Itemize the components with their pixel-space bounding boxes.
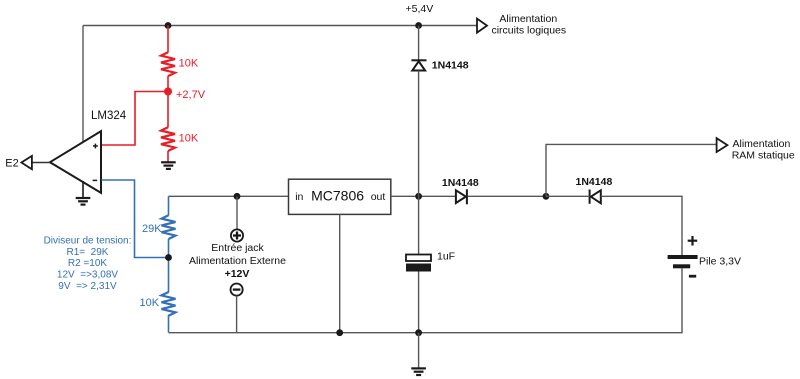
label Alimentation circuits logiques — [491, 13, 566, 37]
diode D2 1N4148 (horizontal, to RAM node) — [456, 189, 467, 204]
svg-text:Alimentation Externe: Alimentation Externe — [189, 255, 286, 267]
label Diviseur de tension block — [44, 235, 132, 292]
svg-text:MC7806: MC7806 — [311, 188, 364, 204]
node jack tap — [234, 193, 241, 200]
wire red feedback to + input — [102, 92, 169, 146]
svg-text:Alimentation: Alimentation — [499, 13, 557, 25]
battery B1 Pile 3,3V — [668, 236, 698, 276]
wire cap to bottom rail — [418, 272, 420, 333]
wire jack + stem — [236, 196, 238, 229]
svg-text:RAM statique: RAM statique — [732, 150, 795, 162]
resistor 10K lower (red) — [161, 127, 175, 151]
node +2,7V (red) — [164, 88, 172, 96]
resistor 10K (blue) — [162, 292, 176, 316]
wire jack - stem — [236, 296, 238, 333]
svg-text:R1= 29K: R1= 29K — [67, 247, 109, 258]
jack - terminal — [231, 284, 243, 296]
resistor 10K upper (red) — [161, 52, 175, 76]
wire RAM branch up and right — [546, 144, 717, 196]
svg-text:9V => 2,31V: 9V => 2,31V — [58, 281, 117, 292]
wire D2 to RAM node — [468, 195, 546, 197]
resistor 29K (blue) — [162, 215, 176, 239]
diode D3 1N4148 (horizontal, from battery) — [590, 190, 601, 204]
svg-text:LM324: LM324 — [91, 110, 127, 122]
wire left vertical to op-amp top — [82, 26, 84, 144]
wire battery minus to bottom rail — [169, 268, 683, 332]
svg-text:Pile 3,3V: Pile 3,3V — [699, 256, 741, 268]
wire red from rail to R top — [167, 26, 169, 162]
wire D3 left to node — [546, 195, 590, 197]
svg-text:R2 =10K: R2 =10K — [68, 258, 108, 269]
svg-text:out: out — [371, 191, 386, 203]
node divider mid — [165, 254, 172, 261]
capacitor C1 1uF — [406, 255, 431, 272]
svg-text:1N4148: 1N4148 — [442, 177, 479, 189]
wire vertical +5,4V branch — [418, 26, 420, 60]
svg-text:12V =>3,08V: 12V =>3,08V — [57, 269, 118, 280]
svg-text:circuits logiques: circuits logiques — [491, 25, 566, 37]
svg-text:E2: E2 — [5, 158, 18, 170]
svg-text:1uF: 1uF — [437, 251, 455, 263]
label Alimentation RAM statique — [732, 138, 795, 162]
svg-text:Alimentation: Alimentation — [733, 138, 791, 150]
node on top rail at +5,4V — [415, 22, 422, 29]
node on top rail at resistor chain — [165, 22, 172, 29]
wire top rail +5,4V — [83, 25, 477, 27]
arrow E2 — [21, 156, 32, 169]
svg-text:29K: 29K — [142, 223, 162, 235]
svg-text:10K: 10K — [179, 133, 199, 145]
svg-text:Diviseur de tension:: Diviseur de tension: — [44, 235, 132, 246]
wire blue divider segments — [168, 196, 170, 332]
svg-text:in: in — [295, 191, 303, 203]
diode D1 1N4148 (vertical) — [411, 60, 426, 70]
node regulator ground on bottom rail — [336, 329, 343, 336]
svg-text:1N4148: 1N4148 — [576, 176, 613, 188]
jack + terminal — [231, 229, 243, 241]
svg-text:Entrée jack: Entrée jack — [211, 242, 264, 254]
svg-text:1N4148: 1N4148 — [432, 60, 469, 72]
node RAM branch — [543, 193, 550, 200]
ground below red divider — [161, 162, 176, 169]
node out rail — [415, 193, 422, 200]
arrow Alimentation circuits logiques — [477, 19, 487, 33]
wire blue from - input to divider node — [102, 180, 167, 258]
svg-text:+5,4V: +5,4V — [406, 3, 434, 15]
wire D3 right to battery — [601, 196, 682, 255]
node main ground on bottom rail — [415, 329, 422, 336]
svg-text:+12V: +12V — [225, 268, 250, 280]
svg-text:10K: 10K — [179, 58, 199, 70]
arrow Alimentation RAM statique — [717, 138, 728, 152]
op-amp U1 LM324 — [50, 131, 101, 193]
svg-text:+2,7V: +2,7V — [176, 89, 206, 101]
wire regulator ground stem — [339, 214, 341, 332]
ground main — [411, 368, 426, 375]
pin - of op-amp — [93, 179, 98, 181]
wire from D1 down to cap — [418, 71, 420, 255]
wire middle rail to regulator in — [169, 195, 289, 197]
wire regulator out — [391, 195, 456, 197]
wire ground stem bottom — [418, 333, 420, 368]
svg-text:10K: 10K — [140, 297, 160, 309]
regulator U2 MC7806 — [289, 179, 391, 214]
pin + of op-amp — [93, 144, 98, 149]
ground of op-amp — [82, 181, 84, 198]
wire output to E2 — [32, 162, 50, 164]
